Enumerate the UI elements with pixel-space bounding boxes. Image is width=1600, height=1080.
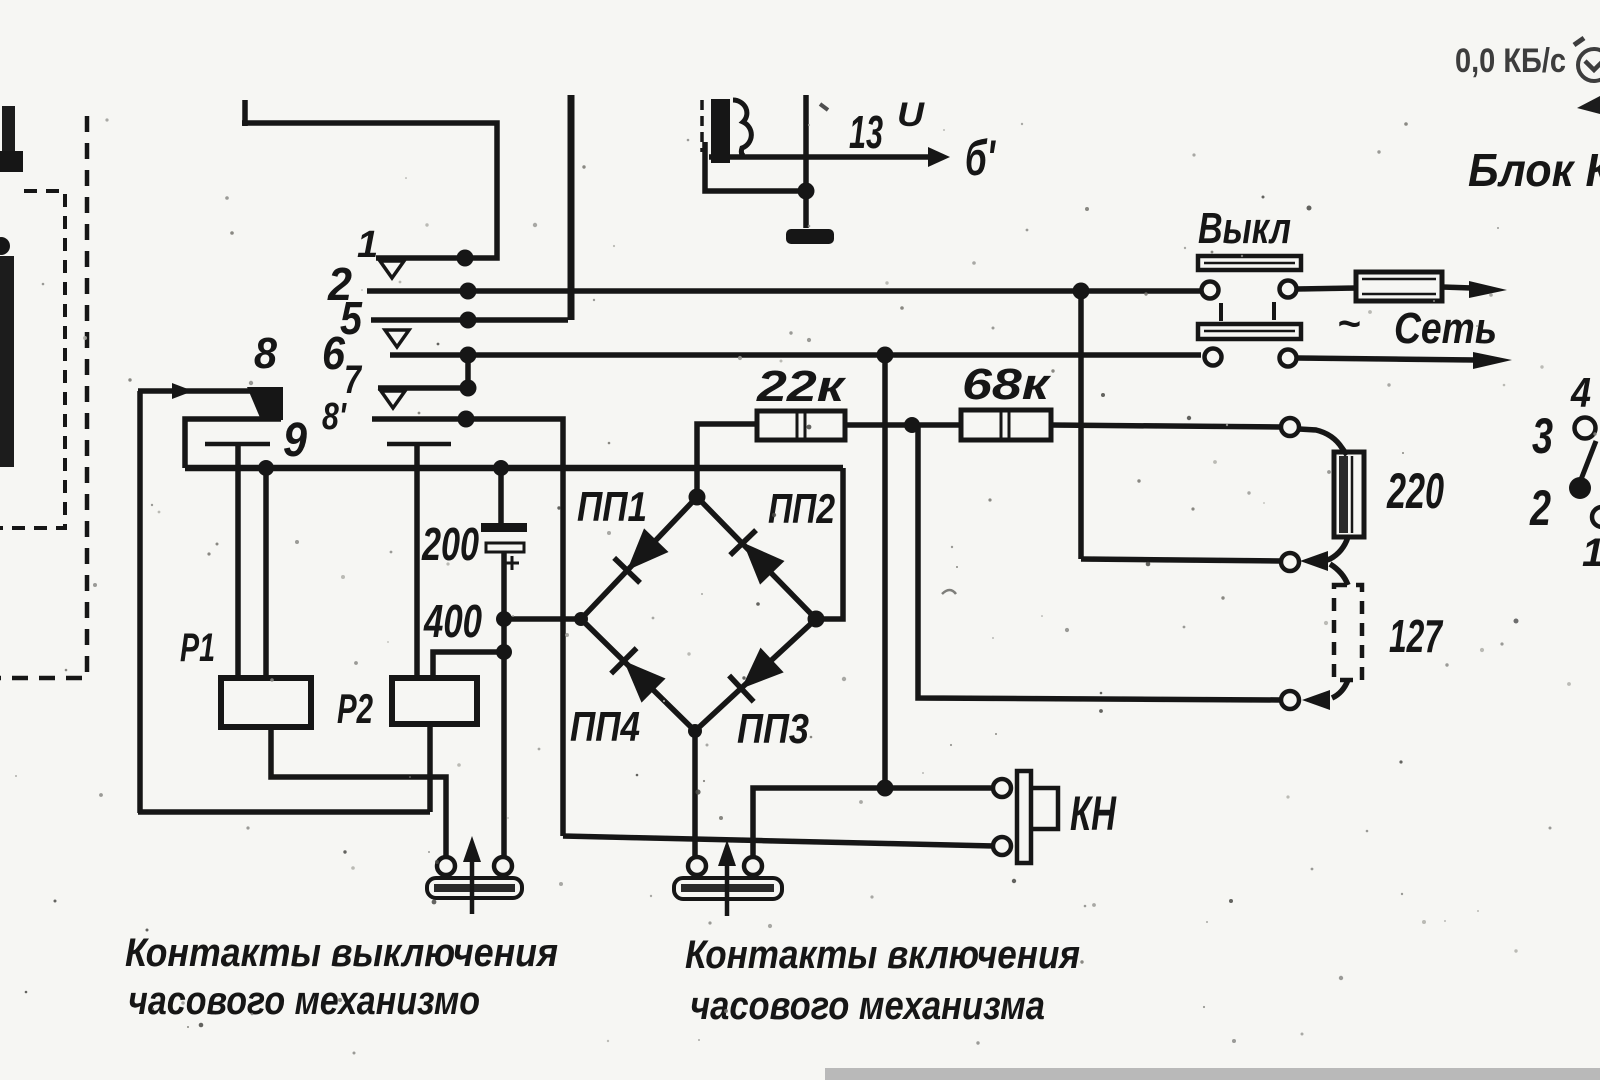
wire 22к to 68к — [845, 422, 961, 428]
contact 5 triangle — [385, 330, 409, 347]
switch contact circles row6 — [1205, 349, 1222, 366]
svg-text:9: 9 — [283, 414, 307, 467]
svg-text:7: 7 — [344, 358, 362, 402]
wire contact to КН top row — [753, 788, 993, 857]
junction dot — [904, 417, 920, 433]
junction dot row5 — [460, 312, 477, 329]
svg-text:68к: 68к — [962, 360, 1052, 409]
junction dot row7 — [460, 380, 477, 397]
transformer T coil arcs — [733, 100, 751, 156]
svg-text:8: 8 — [254, 329, 277, 378]
junction dots row6 — [460, 347, 477, 364]
status clock icon — [1574, 37, 1600, 81]
wire from junction x918 to bottom socket — [918, 425, 1281, 700]
wire bus to middle socket — [1081, 559, 1281, 561]
contact 8 filled triangle — [247, 387, 283, 420]
capacitor plate top — [481, 523, 527, 532]
button КН contact circles — [993, 779, 1011, 797]
diode ПП4 — [611, 648, 666, 703]
wire 68к to lamp socket — [1051, 425, 1281, 427]
junction dot row1 — [457, 250, 474, 267]
switch contact circles row2 — [1202, 282, 1219, 299]
svg-text:200: 200 — [421, 518, 479, 570]
left border wire — [137, 391, 143, 813]
wire 127 bottom with plug arrow — [1332, 680, 1348, 698]
wire Сеть with arrow — [1297, 358, 1475, 360]
stem bar1 to relay P1 — [235, 444, 241, 679]
photo artifact wedge (decorative) — [1577, 96, 1600, 114]
clock contact symbol left: terminals — [437, 857, 455, 875]
junction dot row8 — [458, 411, 475, 428]
socket circle bottom — [1281, 691, 1299, 709]
socket circle top — [1281, 418, 1299, 436]
stem bar2 to relay P2 — [414, 444, 420, 678]
wire cap to relay P2 — [433, 652, 504, 678]
capacitor plate bottom — [486, 543, 524, 552]
wire row 2 — [367, 288, 1201, 294]
left edge fragment: transformer winding (cut) — [0, 106, 23, 172]
bottom wire to КН — [563, 836, 994, 846]
contact 1 triangle — [380, 261, 404, 278]
contact 9 bracket — [185, 419, 281, 468]
wire to fuse — [1297, 288, 1356, 289]
svg-text:8': 8' — [322, 396, 348, 438]
top wire to contact 8 — [138, 388, 250, 394]
switch bar top — [1198, 256, 1301, 270]
wire row 6 — [390, 352, 1201, 358]
svg-text:ПП4: ПП4 — [570, 703, 640, 750]
svg-text:0,0 КБ/с: 0,0 КБ/с — [1455, 42, 1566, 80]
svg-text:13: 13 — [849, 106, 883, 158]
wire P2 bottom — [427, 724, 433, 812]
contact 7 triangle — [381, 391, 405, 408]
junction dots row2 — [460, 283, 477, 300]
wire cap to bridge left vertex — [504, 616, 581, 622]
svg-text:Сеть: Сеть — [1394, 304, 1497, 353]
svg-text:4: 4 — [1570, 369, 1591, 416]
bridge sides — [581, 497, 816, 731]
svg-text:ПП1: ПП1 — [577, 483, 647, 530]
bridge right frame — [816, 468, 843, 619]
capacitor 200/400 stem — [498, 468, 504, 524]
junction dots on main wire — [258, 460, 274, 476]
clock contact symbol left: arrow — [470, 858, 475, 914]
svg-text:400: 400 — [423, 595, 482, 647]
wire row 5 — [371, 317, 568, 323]
svg-text:б': б' — [965, 130, 996, 186]
resistor 68к — [961, 410, 1051, 440]
switch movable bar 2 — [387, 442, 451, 447]
svg-text:Контакты выключения: Контакты выключения — [125, 931, 558, 975]
clock contact symbol left: bar — [427, 878, 522, 898]
capacitor lower stem — [501, 552, 507, 858]
dashed enclosure outer — [0, 116, 87, 678]
wire vertical bus x571 — [568, 95, 575, 320]
svg-text:Блок КП: Блок КП — [1468, 144, 1600, 196]
wire x1081 row2 down — [1078, 291, 1084, 559]
svg-text:ПП3: ПП3 — [737, 705, 809, 752]
wire row 8 — [372, 419, 563, 836]
svg-text:1: 1 — [357, 224, 378, 266]
bridge top stem — [697, 424, 757, 497]
resistor 22к — [757, 411, 845, 440]
svg-text:Выкл: Выкл — [1198, 204, 1291, 253]
ground — [786, 229, 834, 244]
svg-text:Р1: Р1 — [180, 626, 215, 670]
wire bridge bottom to contact — [692, 731, 698, 857]
wire P1 bottom to contact — [271, 727, 446, 857]
svg-text:Контакты включения: Контакты включения — [685, 933, 1080, 977]
wire fuse to arrow — [1442, 287, 1472, 288]
wire x885 row6 down — [882, 355, 888, 788]
svg-text:ПП2: ПП2 — [768, 485, 835, 532]
wire socket to lamp 220 — [1299, 429, 1347, 455]
junction dots — [496, 611, 512, 627]
svg-text:1: 1 — [1582, 531, 1600, 575]
lamp 127 dashed — [1334, 585, 1362, 680]
svg-text:U: U — [897, 96, 926, 134]
diode ПП2 — [730, 530, 785, 585]
svg-text:часового механизма: часового механизма — [690, 984, 1045, 1028]
wire output b with arrow — [709, 154, 928, 160]
stem from main wire to relay P1 — [263, 468, 269, 679]
fuse — [1356, 272, 1442, 301]
scrollbar — [825, 1068, 1600, 1080]
wire lamp 220 bottom with plug arrow — [1327, 537, 1348, 560]
lamp 220 — [1334, 452, 1364, 537]
wire 127 top link — [1330, 564, 1348, 585]
button КН actuator — [1017, 771, 1031, 863]
svg-text:Р2: Р2 — [337, 685, 373, 732]
svg-text:3: 3 — [1532, 408, 1553, 464]
switch movable bar 1 — [205, 442, 270, 447]
relay P2 — [392, 678, 477, 724]
connector switch arm — [1580, 441, 1596, 482]
svg-text:22к: 22к — [756, 362, 848, 411]
left edge fragment: thick bar component (cut) — [0, 256, 14, 467]
junction dot — [877, 780, 894, 797]
dashed enclosure inner — [0, 191, 65, 528]
relay P1 — [221, 678, 311, 727]
clock contact symbol right: arrow — [725, 862, 730, 916]
wire from winding to junction — [705, 142, 800, 191]
bridge vertex dots — [689, 489, 706, 506]
transformer T core — [700, 100, 704, 152]
status indicator 0,0 КБ/с — [1455, 42, 1566, 80]
wire vertical to ground — [803, 95, 809, 228]
junction dot — [798, 183, 815, 200]
diode ПП1 — [614, 528, 669, 583]
clock contact symbol right: bar — [674, 878, 782, 899]
svg-text:КН: КН — [1070, 788, 1117, 841]
diode ПП3 — [729, 647, 784, 702]
svg-text:2: 2 — [1529, 480, 1551, 536]
svg-text:часового механизмо: часового механизмо — [128, 979, 480, 1023]
wire top-left corner to contact 1 — [242, 100, 497, 258]
left edge fragment: terminal knob — [0, 237, 10, 255]
capacitor polarity mark — [505, 556, 519, 570]
svg-text:127: 127 — [1389, 610, 1444, 662]
wire row 7 with link — [378, 355, 474, 388]
main horizontal wire y468 — [185, 465, 843, 472]
svg-text:220: 220 — [1386, 463, 1444, 519]
switch bar bottom — [1198, 324, 1301, 339]
switch push rods — [1221, 302, 1274, 321]
svg-text:~: ~ — [1337, 302, 1360, 346]
svg-text:6: 6 — [322, 327, 345, 379]
socket circle middle — [1281, 553, 1299, 571]
bottom wire left — [138, 809, 430, 815]
transformer T winding — [711, 99, 730, 163]
clock contact symbol right: terminals — [688, 857, 706, 875]
arrowhead on top wire — [172, 383, 193, 399]
